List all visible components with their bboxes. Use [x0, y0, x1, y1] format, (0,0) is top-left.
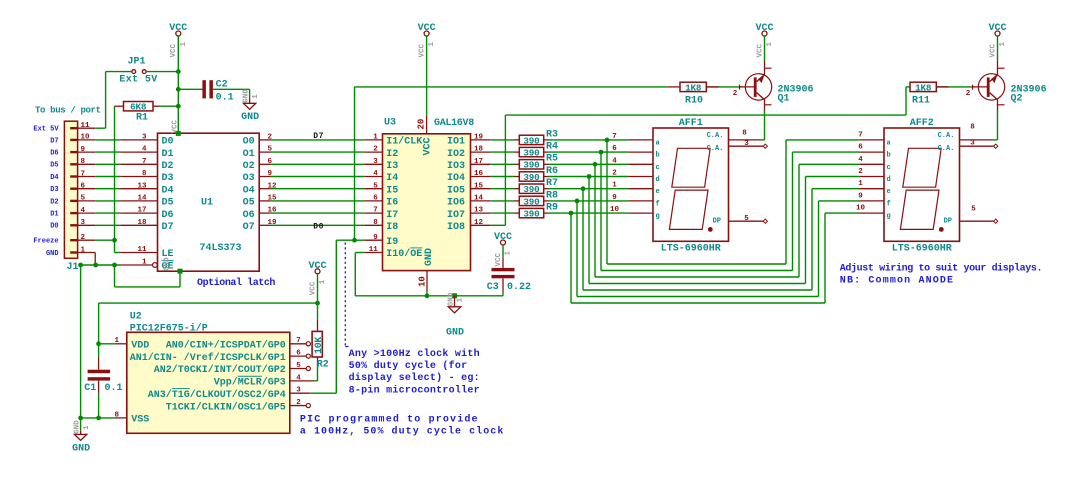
svg-text:VCC: VCC	[755, 23, 773, 34]
svg-text:I7: I7	[386, 210, 398, 221]
svg-text:D0: D0	[50, 223, 58, 231]
svg-text:VCC: VCC	[418, 43, 426, 57]
svg-text:VCC: VCC	[989, 43, 997, 57]
svg-text:GND: GND	[164, 257, 172, 271]
svg-text:D3: D3	[50, 186, 58, 194]
svg-text:5: 5	[971, 205, 976, 213]
svg-text:3: 3	[373, 158, 378, 166]
svg-text:IO4: IO4	[447, 173, 465, 184]
svg-text:LTS-6960HR: LTS-6960HR	[892, 244, 952, 255]
svg-text:O4: O4	[243, 185, 255, 196]
svg-text:1: 1	[81, 246, 86, 254]
svg-text:8-pin microcontroller: 8-pin microcontroller	[349, 384, 480, 396]
svg-text:3: 3	[142, 134, 147, 142]
svg-text:390: 390	[523, 148, 540, 159]
svg-text:3: 3	[970, 139, 975, 147]
svg-text:LTS-6960HR: LTS-6960HR	[661, 244, 721, 255]
svg-text:4: 4	[373, 170, 378, 178]
svg-text:D4: D4	[50, 174, 58, 182]
svg-text:NB: Common ANODE: NB: Common ANODE	[840, 276, 954, 287]
svg-text:VSS: VSS	[131, 415, 149, 426]
svg-text:D7: D7	[162, 222, 174, 233]
svg-text:IO8: IO8	[447, 222, 465, 233]
svg-text:GND: GND	[424, 248, 435, 266]
svg-text:IO7: IO7	[447, 210, 465, 221]
svg-text:d: d	[656, 176, 660, 184]
svg-text:9: 9	[858, 192, 863, 200]
svg-text:4: 4	[142, 146, 147, 154]
svg-text:O0: O0	[243, 137, 255, 148]
svg-text:R7: R7	[546, 178, 558, 189]
svg-text:R9: R9	[546, 203, 558, 214]
svg-text:4: 4	[81, 207, 86, 215]
svg-text:Any >100Hz clock with: Any >100Hz clock with	[349, 348, 480, 360]
svg-text:U1: U1	[201, 198, 213, 209]
svg-text:1: 1	[142, 259, 147, 267]
svg-text:7: 7	[612, 133, 617, 141]
svg-text:6: 6	[373, 195, 378, 203]
svg-text:JP1: JP1	[127, 57, 145, 68]
svg-text:c: c	[887, 164, 891, 172]
svg-text:D7: D7	[313, 132, 324, 141]
svg-text:I1/CLK: I1/CLK	[386, 136, 422, 148]
svg-text:D3: D3	[162, 173, 174, 184]
svg-text:R2: R2	[317, 360, 329, 371]
svg-text:5: 5	[373, 182, 378, 190]
svg-text:D5: D5	[162, 198, 174, 209]
svg-text:6K8: 6K8	[130, 102, 147, 113]
svg-text:11: 11	[137, 246, 147, 254]
svg-text:1: 1	[252, 94, 260, 99]
svg-text:d: d	[887, 176, 891, 184]
svg-text:7: 7	[373, 207, 378, 215]
svg-text:IO3: IO3	[447, 161, 465, 172]
svg-text:D2: D2	[162, 161, 174, 172]
svg-text:C3: C3	[487, 282, 499, 293]
svg-text:9: 9	[373, 234, 378, 242]
svg-text:AFF2: AFF2	[910, 118, 934, 129]
svg-text:VCC: VCC	[170, 43, 178, 57]
svg-text:3: 3	[744, 140, 749, 148]
svg-text:1: 1	[999, 42, 1007, 47]
svg-text:18: 18	[137, 219, 147, 227]
svg-text:GND: GND	[46, 250, 59, 258]
svg-text:J1: J1	[67, 262, 79, 273]
svg-text:C.A.: C.A.	[938, 132, 955, 140]
svg-text:VCC: VCC	[418, 23, 436, 34]
svg-text:display select) - eg:: display select) - eg:	[349, 372, 480, 384]
svg-text:10: 10	[417, 276, 427, 287]
svg-text:2: 2	[966, 90, 971, 98]
svg-text:D7: D7	[50, 137, 58, 145]
svg-text:11: 11	[369, 246, 379, 254]
svg-text:VCC: VCC	[756, 43, 764, 57]
svg-text:7: 7	[858, 131, 863, 139]
svg-text:R4: R4	[546, 142, 558, 153]
svg-text:9: 9	[81, 146, 86, 154]
svg-text:1: 1	[457, 297, 465, 302]
svg-text:GND: GND	[73, 420, 81, 434]
svg-text:R10: R10	[685, 95, 703, 106]
svg-text:D5: D5	[50, 162, 58, 170]
svg-text:R8: R8	[546, 190, 558, 201]
svg-text:To bus / port: To bus / port	[35, 106, 101, 116]
svg-text:O6: O6	[243, 210, 255, 221]
svg-text:1: 1	[612, 182, 617, 190]
svg-text:GAL16V8: GAL16V8	[434, 118, 474, 129]
svg-text:D6: D6	[50, 150, 58, 158]
svg-text:VCC: VCC	[422, 137, 433, 155]
svg-text:5: 5	[744, 215, 749, 223]
svg-text:390: 390	[523, 172, 540, 183]
svg-text:14: 14	[137, 195, 147, 203]
svg-text:O3: O3	[243, 173, 255, 184]
svg-text:g: g	[887, 213, 891, 221]
svg-text:1K8: 1K8	[915, 82, 932, 93]
svg-text:I2: I2	[386, 149, 398, 160]
svg-text:6: 6	[612, 145, 617, 153]
svg-text:AN1/CIN- /Vref/ICSPCLK/GP1: AN1/CIN- /Vref/ICSPCLK/GP1	[130, 352, 286, 364]
svg-text:8: 8	[970, 123, 975, 131]
svg-text:2: 2	[733, 90, 738, 98]
svg-text:390: 390	[523, 135, 540, 146]
svg-text:O1: O1	[243, 149, 255, 160]
svg-text:390: 390	[523, 209, 540, 220]
svg-text:R11: R11	[912, 95, 930, 106]
svg-text:DP: DP	[713, 217, 721, 225]
svg-text:1: 1	[319, 279, 327, 284]
svg-text:I5: I5	[386, 185, 398, 196]
svg-text:7: 7	[81, 170, 86, 178]
svg-text:Q1: Q1	[778, 94, 790, 105]
svg-text:R3: R3	[546, 129, 558, 140]
svg-text:4: 4	[858, 156, 863, 164]
svg-text:3: 3	[81, 219, 86, 227]
svg-text:390: 390	[523, 184, 540, 195]
svg-text:f: f	[887, 200, 891, 208]
svg-text:8: 8	[81, 158, 86, 166]
svg-text:1: 1	[180, 42, 188, 47]
svg-text:5: 5	[81, 195, 86, 203]
svg-text:1: 1	[858, 180, 863, 188]
svg-text:C.A.: C.A.	[707, 132, 724, 140]
svg-text:c: c	[656, 164, 660, 172]
svg-text:6: 6	[858, 144, 863, 152]
svg-text:GND: GND	[241, 112, 259, 123]
svg-text:Freeze: Freeze	[33, 238, 58, 246]
svg-text:VCC: VCC	[169, 23, 187, 34]
svg-text:GND: GND	[242, 89, 250, 103]
svg-text:0.1: 0.1	[216, 93, 234, 104]
svg-text:8: 8	[373, 219, 378, 227]
svg-text:b: b	[656, 152, 660, 160]
svg-text:VDD: VDD	[131, 341, 149, 352]
svg-text:10: 10	[81, 134, 91, 142]
svg-text:D1: D1	[50, 211, 58, 219]
svg-text:I10/OE: I10/OE	[386, 248, 422, 260]
svg-text:VCC: VCC	[308, 261, 326, 272]
svg-text:10: 10	[856, 205, 866, 213]
svg-text:I4: I4	[386, 173, 398, 184]
svg-text:e: e	[887, 188, 891, 196]
svg-text:C1: C1	[84, 383, 96, 394]
svg-text:1K8: 1K8	[685, 82, 702, 93]
svg-text:AN3/T1G/CLKOUT/OSC2/GP4: AN3/T1G/CLKOUT/OSC2/GP4	[148, 389, 286, 401]
svg-text:I9: I9	[386, 237, 398, 248]
svg-text:9: 9	[612, 194, 617, 202]
svg-text:AFF1: AFF1	[679, 118, 703, 129]
svg-text:Ext 5V: Ext 5V	[33, 126, 59, 134]
svg-text:4: 4	[612, 157, 617, 165]
svg-text:Optional latch: Optional latch	[197, 277, 275, 289]
svg-text:VCC: VCC	[988, 23, 1006, 34]
svg-text:R6: R6	[546, 166, 558, 177]
svg-text:IO2: IO2	[447, 149, 465, 160]
svg-text:0.22: 0.22	[507, 282, 531, 293]
svg-text:11: 11	[81, 122, 91, 130]
svg-text:O7: O7	[243, 222, 255, 233]
svg-text:8: 8	[142, 170, 147, 178]
svg-text:GND: GND	[446, 327, 464, 338]
svg-text:74LS373: 74LS373	[199, 243, 241, 254]
svg-text:DP: DP	[944, 217, 952, 225]
svg-text:50% duty cycle (for: 50% duty cycle (for	[349, 360, 468, 372]
svg-text:a 100Hz, 50% duty cycle clock: a 100Hz, 50% duty cycle clock	[300, 426, 504, 438]
svg-text:D4: D4	[162, 185, 174, 196]
svg-text:T1CKI/CLKIN/OSC1/GP5: T1CKI/CLKIN/OSC1/GP5	[166, 401, 286, 413]
svg-text:0.1: 0.1	[105, 383, 123, 394]
svg-text:I3: I3	[386, 161, 398, 172]
svg-text:VCC: VCC	[495, 252, 503, 266]
svg-text:Ext 5V: Ext 5V	[119, 74, 157, 85]
svg-text:D1: D1	[162, 149, 174, 160]
svg-text:IO6: IO6	[447, 198, 465, 209]
svg-text:10: 10	[610, 206, 620, 214]
svg-text:1: 1	[83, 425, 91, 430]
svg-text:390: 390	[523, 196, 540, 207]
svg-text:C.A.: C.A.	[707, 145, 724, 153]
svg-text:Adjust wiring to suit your dis: Adjust wiring to suit your displays.	[840, 263, 1042, 275]
svg-text:1: 1	[766, 42, 774, 47]
svg-text:AN2/T0CKI/INT/COUT/GP2: AN2/T0CKI/INT/COUT/GP2	[154, 364, 286, 376]
svg-text:GND: GND	[447, 292, 455, 306]
svg-text:U3: U3	[384, 117, 396, 128]
svg-text:C.A.: C.A.	[938, 145, 955, 153]
svg-text:Q2: Q2	[1011, 94, 1023, 105]
svg-text:U2: U2	[130, 311, 142, 322]
svg-text:1: 1	[428, 42, 436, 47]
svg-text:O5: O5	[243, 198, 255, 209]
svg-text:R5: R5	[546, 154, 558, 165]
svg-text:D6: D6	[162, 210, 174, 221]
svg-text:1: 1	[373, 134, 378, 142]
svg-text:PIC12F675-i/P: PIC12F675-i/P	[130, 322, 208, 334]
svg-text:R1: R1	[136, 113, 148, 124]
svg-text:Vpp/MCLR/GP3: Vpp/MCLR/GP3	[214, 377, 286, 389]
svg-text:13: 13	[137, 182, 147, 190]
svg-text:10K: 10K	[314, 337, 325, 354]
svg-text:VCC: VCC	[494, 232, 512, 243]
svg-text:7: 7	[142, 158, 147, 166]
svg-text:1: 1	[505, 251, 513, 256]
svg-text:g: g	[656, 213, 660, 221]
svg-text:D2: D2	[50, 198, 58, 206]
svg-text:b: b	[887, 152, 891, 160]
svg-text:D0: D0	[162, 137, 174, 148]
svg-text:2: 2	[373, 146, 378, 154]
svg-text:VCC: VCC	[172, 119, 180, 133]
svg-text:20: 20	[416, 119, 426, 130]
svg-text:I6: I6	[386, 198, 398, 209]
svg-text:O2: O2	[243, 161, 255, 172]
svg-text:17: 17	[137, 207, 146, 215]
svg-text:D0: D0	[313, 223, 324, 232]
svg-text:2: 2	[858, 168, 863, 176]
svg-text:390: 390	[523, 160, 540, 171]
svg-text:2: 2	[81, 234, 86, 242]
svg-text:GND: GND	[72, 444, 90, 455]
svg-text:AN0/CIN+/ICSPDAT/GP0: AN0/CIN+/ICSPDAT/GP0	[166, 340, 286, 352]
svg-text:f: f	[656, 200, 660, 208]
svg-text:IO1: IO1	[447, 137, 465, 148]
svg-text:PIC programmed to provide: PIC programmed to provide	[300, 413, 479, 425]
svg-text:6: 6	[81, 183, 86, 191]
svg-text:IO5: IO5	[447, 185, 465, 196]
svg-text:e: e	[656, 188, 660, 196]
svg-text:8: 8	[742, 129, 747, 137]
svg-text:VCC: VCC	[309, 281, 317, 295]
svg-text:2: 2	[612, 170, 617, 178]
svg-text:I8: I8	[386, 222, 398, 233]
